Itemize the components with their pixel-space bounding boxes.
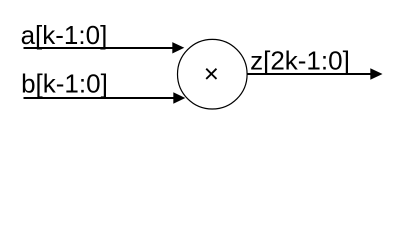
svg-text:b[k-1:0]: b[k-1:0] [21, 69, 108, 99]
svg-text:z[2k-1:0]: z[2k-1:0] [250, 45, 350, 75]
wire a input [24, 47, 174, 49]
arrowhead z [370, 68, 382, 80]
svg-text:a[k-1:0]: a[k-1:0] [21, 20, 108, 50]
wire b input [24, 97, 175, 99]
wire z output [247, 73, 371, 75]
multiplier U1 circle [178, 39, 248, 109]
arrowhead b [173, 92, 185, 103]
svg-text:×: × [204, 59, 219, 89]
arrowhead a [172, 42, 184, 53]
